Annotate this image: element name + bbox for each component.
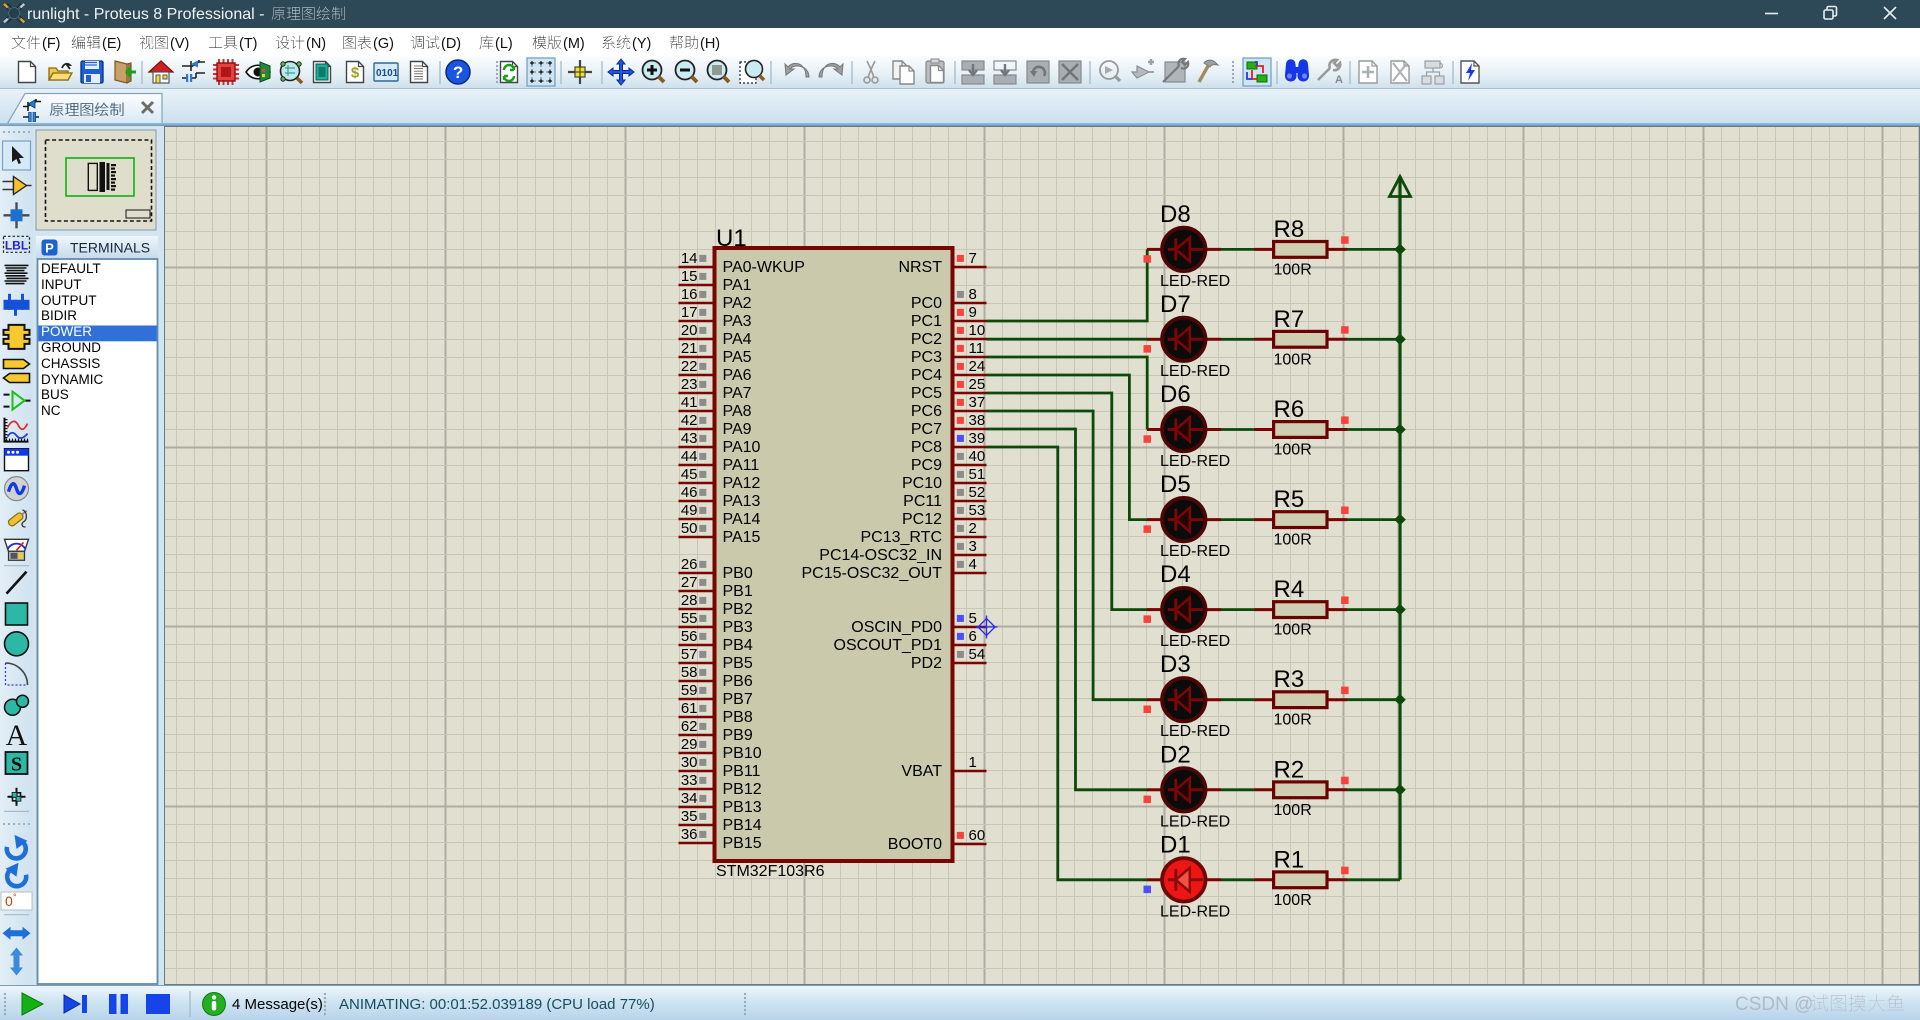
- svg-text:100R: 100R: [1274, 802, 1312, 819]
- wire PC7 to D2: [987, 429, 1148, 790]
- svg-text:51: 51: [969, 466, 986, 483]
- svg-text:0101: 0101: [376, 68, 399, 79]
- wire R7 to power rail: [1347, 338, 1400, 341]
- wire R1 to power rail: [1347, 878, 1400, 881]
- wire PC8 to D1: [987, 447, 1148, 880]
- svg-text:D1: D1: [1160, 831, 1191, 858]
- wire R8 to power rail: [1347, 248, 1400, 251]
- D8 reference label: [1160, 201, 1191, 228]
- svg-text:PB3: PB3: [723, 619, 753, 636]
- svg-text:(N): (N): [306, 36, 326, 52]
- svg-text:PB13: PB13: [723, 799, 762, 816]
- svg-text:(L): (L): [495, 36, 513, 52]
- svg-text:PC2: PC2: [911, 331, 942, 348]
- D1 value label LED-RED: [1160, 903, 1230, 920]
- svg-text:D7: D7: [1160, 291, 1191, 318]
- U1 left pin PB12 (pin 33): [679, 772, 762, 798]
- svg-text:42: 42: [681, 412, 698, 429]
- svg-text:A: A: [1335, 74, 1343, 86]
- resistor R2 100R: [1255, 782, 1348, 798]
- svg-text:PC10: PC10: [902, 475, 942, 492]
- R4 reference label: [1274, 576, 1305, 603]
- wire PC6 to D3: [987, 411, 1148, 700]
- R6 value label 100R: [1274, 442, 1312, 459]
- U1 left pin PB13 (pin 34): [679, 790, 762, 816]
- svg-text:D5: D5: [1160, 471, 1191, 498]
- U1 right pin PC1 (pin 9): [911, 304, 987, 330]
- svg-text:23: 23: [681, 376, 698, 393]
- svg-text:BOOT0: BOOT0: [888, 836, 942, 853]
- wire R3 to power rail: [1347, 698, 1400, 701]
- R1 reference label: [1274, 846, 1305, 873]
- svg-text:PB11: PB11: [723, 763, 761, 780]
- svg-text:44: 44: [681, 448, 698, 465]
- D6 value label LED-RED: [1160, 453, 1230, 470]
- svg-text:PB14: PB14: [723, 817, 762, 834]
- svg-text:34: 34: [681, 790, 698, 807]
- junction rail/R5: [1394, 514, 1406, 526]
- R8 right net state square: [1341, 236, 1349, 244]
- LED D5: [1147, 498, 1221, 541]
- svg-text:PA13: PA13: [723, 493, 761, 510]
- svg-text:58: 58: [681, 664, 698, 681]
- svg-text:0: 0: [5, 893, 13, 909]
- svg-text:37: 37: [969, 394, 986, 411]
- wire D7 anode to R7: [1221, 338, 1255, 341]
- U1 left pin PB4 (pin 56): [679, 628, 753, 654]
- svg-text:R1: R1: [1274, 846, 1305, 873]
- U1 left pin PB9 (pin 62): [679, 718, 753, 744]
- U1 left pin PB1 (pin 27): [679, 574, 753, 600]
- svg-text:PB9: PB9: [723, 727, 753, 744]
- D3 value label LED-RED: [1160, 723, 1230, 740]
- svg-text:PA1: PA1: [723, 277, 752, 294]
- U1 left pin PA0-WKUP (pin 14): [679, 250, 805, 276]
- svg-text:ANIMATING: 00:01:52.039189 (CP: ANIMATING: 00:01:52.039189 (CPU load 77%…: [339, 996, 655, 1013]
- svg-text:10: 10: [969, 322, 986, 339]
- svg-text:PB1: PB1: [723, 583, 753, 600]
- svg-text:PA12: PA12: [723, 475, 761, 492]
- U1 right pin PC10 (pin 51): [902, 466, 987, 492]
- svg-text:D6: D6: [1160, 381, 1191, 408]
- svg-text:PA11: PA11: [723, 457, 760, 474]
- U1 left pin PB8 (pin 61): [679, 700, 753, 726]
- svg-text:55: 55: [681, 610, 698, 627]
- junction rail/R8: [1394, 244, 1406, 256]
- svg-text:PC8: PC8: [911, 439, 942, 456]
- resistor R4 100R: [1255, 602, 1348, 618]
- wire R2 to power rail: [1347, 788, 1400, 791]
- svg-text:PC6: PC6: [911, 403, 942, 420]
- svg-text:runlight - Proteus 8 Professio: runlight - Proteus 8 Professional -: [27, 6, 264, 23]
- D7 cathode net state square: [1144, 345, 1152, 353]
- svg-text:46: 46: [681, 484, 698, 501]
- svg-text:PA9: PA9: [723, 421, 752, 438]
- svg-text:S: S: [11, 754, 22, 776]
- U1 left pin PA3 (pin 17): [679, 304, 752, 330]
- D4 reference label: [1160, 561, 1191, 588]
- svg-text:(T): (T): [239, 36, 258, 52]
- resistor R6 100R: [1255, 422, 1348, 438]
- svg-text:PA6: PA6: [723, 367, 752, 384]
- LED D4: [1147, 588, 1221, 631]
- resistor R1 100R: [1255, 872, 1348, 888]
- resistor R5 100R: [1255, 512, 1348, 528]
- svg-text:LED-RED: LED-RED: [1160, 363, 1230, 380]
- U1 left pin PA13 (pin 46): [679, 484, 761, 510]
- D1 reference label: [1160, 831, 1191, 858]
- svg-text:20: 20: [681, 322, 698, 339]
- svg-text:PC12: PC12: [902, 511, 942, 528]
- svg-text:PC13_RTC: PC13_RTC: [860, 529, 942, 546]
- R2 value label 100R: [1274, 802, 1312, 819]
- U1 left pin PA14 (pin 49): [679, 502, 761, 528]
- svg-text:28: 28: [681, 592, 698, 609]
- svg-text:LED-RED: LED-RED: [1160, 633, 1230, 650]
- svg-text:PA0-WKUP: PA0-WKUP: [723, 259, 805, 276]
- U1 right pin PC6 (pin 37): [911, 394, 987, 420]
- svg-text:(E): (E): [102, 36, 121, 52]
- U1 right pin NRST (pin 7): [898, 250, 986, 276]
- U1 right pin OSCOUT_PD1 (pin 6): [834, 628, 987, 654]
- svg-text:R4: R4: [1274, 576, 1305, 603]
- LED D3: [1147, 678, 1221, 721]
- svg-text:(Y): (Y): [632, 36, 651, 52]
- svg-text:33: 33: [681, 772, 698, 789]
- U1 right pin PC11 (pin 52): [903, 484, 986, 510]
- power terminal VCC: [1390, 177, 1411, 197]
- svg-text:(G): (G): [373, 36, 394, 52]
- svg-text:4 Message(s): 4 Message(s): [232, 996, 323, 1013]
- U1 left pin PA12 (pin 45): [679, 466, 761, 492]
- R2 reference label: [1274, 756, 1305, 783]
- svg-text:LED-RED: LED-RED: [1160, 723, 1230, 740]
- U1 right pin VBAT (pin 1): [901, 754, 986, 780]
- U1 reference label: [716, 225, 747, 252]
- U1 right pin PD2 (pin 54): [911, 646, 987, 672]
- svg-text:38: 38: [969, 412, 986, 429]
- svg-text:PC15-OSC32_OUT: PC15-OSC32_OUT: [802, 565, 943, 582]
- svg-text:15: 15: [681, 268, 698, 285]
- svg-text:100R: 100R: [1274, 622, 1312, 639]
- svg-text:CSDN @: CSDN @: [1735, 994, 1813, 1015]
- U1 left pin PB2 (pin 28): [679, 592, 753, 618]
- svg-text:OSCIN_PD0: OSCIN_PD0: [851, 619, 942, 636]
- resistor R8 100R: [1255, 242, 1348, 258]
- svg-text:R7: R7: [1274, 306, 1305, 333]
- svg-text:R8: R8: [1274, 216, 1305, 243]
- svg-text:LED-RED: LED-RED: [1160, 273, 1230, 290]
- U1 value label STM32F103R6: [716, 863, 825, 880]
- svg-text:D8: D8: [1160, 201, 1191, 228]
- svg-text:100R: 100R: [1274, 532, 1312, 549]
- svg-text:39: 39: [969, 430, 986, 447]
- D2 cathode net state square: [1144, 796, 1152, 804]
- R2 right net state square: [1341, 777, 1349, 785]
- svg-text:(V): (V): [170, 36, 189, 52]
- LED D2: [1147, 768, 1221, 811]
- U1 right pin PC5 (pin 25): [911, 376, 987, 402]
- svg-text:PA2: PA2: [723, 295, 752, 312]
- svg-text:56: 56: [681, 628, 698, 645]
- U1 left pin PA8 (pin 41): [679, 394, 752, 420]
- svg-text:100R: 100R: [1274, 892, 1312, 909]
- svg-text:41: 41: [681, 394, 698, 411]
- junction rail/R4: [1394, 604, 1406, 616]
- svg-text:PC4: PC4: [911, 367, 942, 384]
- U1 left pin PA6 (pin 22): [679, 358, 752, 384]
- U1 right pin PC15-OSC32_OUT (pin 4): [802, 556, 987, 582]
- wire PC4 to D5: [987, 375, 1148, 520]
- svg-text:25: 25: [969, 376, 986, 393]
- svg-text:P: P: [45, 241, 54, 256]
- svg-text:LED-RED: LED-RED: [1160, 543, 1230, 560]
- svg-text:62: 62: [681, 718, 698, 735]
- svg-text:7: 7: [969, 250, 977, 267]
- R7 reference label: [1274, 306, 1305, 333]
- svg-text:PB15: PB15: [723, 835, 762, 852]
- D1 cathode net state square: [1144, 886, 1152, 894]
- resistor R3 100R: [1255, 692, 1348, 708]
- wire D4 anode to R4: [1221, 608, 1255, 611]
- svg-text:TERMINALS: TERMINALS: [70, 240, 150, 256]
- svg-text:PC9: PC9: [911, 457, 942, 474]
- svg-text:22: 22: [681, 358, 698, 375]
- U1 left pin PA7 (pin 23): [679, 376, 752, 402]
- U1 left pin PA15 (pin 50): [679, 520, 761, 546]
- svg-text:PC14-OSC32_IN: PC14-OSC32_IN: [819, 547, 942, 564]
- D8 cathode net state square: [1144, 255, 1152, 263]
- editing cursor: [976, 616, 998, 639]
- svg-text:30: 30: [681, 754, 698, 771]
- svg-text:PB6: PB6: [723, 673, 753, 690]
- U1 right pin PC12 (pin 53): [902, 502, 987, 528]
- svg-text:LED-RED: LED-RED: [1160, 453, 1230, 470]
- R7 right net state square: [1341, 326, 1349, 334]
- svg-text:50: 50: [681, 520, 698, 537]
- svg-text:24: 24: [969, 358, 986, 375]
- U1 right pin PC0 (pin 8): [911, 286, 987, 312]
- U1 left pin PA2 (pin 16): [679, 286, 752, 312]
- U1 left pin PB15 (pin 36): [679, 826, 762, 852]
- svg-text:PC11: PC11: [903, 493, 942, 510]
- R8 value label 100R: [1274, 261, 1312, 278]
- svg-text:9: 9: [969, 304, 977, 321]
- svg-text:PB5: PB5: [723, 655, 753, 672]
- svg-text:59: 59: [681, 682, 698, 699]
- svg-text:11: 11: [969, 340, 985, 357]
- U1 left pin PA9 (pin 42): [679, 412, 752, 438]
- svg-text:PC7: PC7: [911, 421, 942, 438]
- wire R4 to power rail: [1347, 608, 1400, 611]
- resistor R7 100R: [1255, 331, 1348, 347]
- wire D6 anode to R6: [1221, 428, 1255, 431]
- junction rail/R2: [1394, 784, 1406, 796]
- svg-text:5: 5: [969, 610, 977, 627]
- wire PC3 to D6: [987, 357, 1148, 430]
- svg-text:PD2: PD2: [911, 655, 942, 672]
- wire R6 to power rail: [1347, 428, 1400, 431]
- R5 right net state square: [1341, 507, 1349, 515]
- svg-text:PA5: PA5: [723, 349, 752, 366]
- svg-text:35: 35: [681, 808, 698, 825]
- U1 left pin PB14 (pin 35): [679, 808, 762, 834]
- R4 right net state square: [1341, 597, 1349, 605]
- svg-text:40: 40: [969, 448, 986, 465]
- U1 right pin PC14-OSC32_IN (pin 3): [819, 538, 986, 564]
- svg-text:PC5: PC5: [911, 385, 942, 402]
- IC U1 STM32F103R6: [715, 248, 953, 861]
- svg-text:1: 1: [969, 754, 977, 771]
- svg-text:R2: R2: [1274, 756, 1305, 783]
- svg-text:PC1: PC1: [911, 313, 942, 330]
- svg-text:8: 8: [969, 286, 977, 303]
- svg-text:(M): (M): [563, 36, 585, 52]
- D5 reference label: [1160, 471, 1191, 498]
- svg-text:U1: U1: [716, 225, 747, 252]
- svg-text:61: 61: [681, 700, 698, 717]
- U1 right pin PC8 (pin 39): [911, 430, 987, 456]
- U1 left pin PA5 (pin 21): [679, 340, 752, 366]
- U1 right pin OSCIN_PD0 (pin 5): [851, 610, 986, 636]
- svg-text:D4: D4: [1160, 561, 1191, 588]
- svg-text:27: 27: [681, 574, 698, 591]
- U1 left pin PB7 (pin 59): [679, 682, 753, 708]
- U1 right pin PC3 (pin 11): [911, 340, 987, 366]
- svg-text:45: 45: [681, 466, 698, 483]
- svg-text:PA8: PA8: [723, 403, 752, 420]
- svg-text:PC3: PC3: [911, 349, 942, 366]
- junction rail/R6: [1394, 424, 1406, 436]
- svg-text:PA15: PA15: [723, 529, 761, 546]
- junction rail/R7: [1394, 334, 1406, 346]
- svg-text:36: 36: [681, 826, 698, 843]
- U1 left pin PA10 (pin 43): [679, 430, 761, 456]
- R7 value label 100R: [1274, 351, 1312, 368]
- svg-text:?: ?: [453, 63, 463, 82]
- D2 reference label: [1160, 741, 1191, 768]
- wire PC5 to D4: [987, 393, 1148, 610]
- svg-text:60: 60: [969, 827, 986, 844]
- svg-text:100R: 100R: [1274, 351, 1312, 368]
- svg-text:100R: 100R: [1274, 261, 1312, 278]
- svg-text:17: 17: [681, 304, 698, 321]
- svg-text:PA4: PA4: [723, 331, 752, 348]
- D8 value label LED-RED: [1160, 273, 1230, 290]
- U1 left pin PB10 (pin 29): [679, 736, 762, 762]
- U1 left pin PA11 (pin 44): [679, 448, 760, 474]
- svg-text:3: 3: [969, 538, 977, 555]
- LED D8: [1147, 228, 1221, 271]
- svg-text:PB0: PB0: [723, 565, 753, 582]
- D6 reference label: [1160, 381, 1191, 408]
- U1 right pin PC4 (pin 24): [911, 358, 987, 384]
- svg-text:LBL: LBL: [5, 238, 28, 252]
- U1 left pin PB6 (pin 58): [679, 664, 753, 690]
- svg-text:PB4: PB4: [723, 637, 753, 654]
- svg-text:VBAT: VBAT: [901, 763, 942, 780]
- svg-text:52: 52: [969, 484, 986, 501]
- svg-text:D3: D3: [1160, 651, 1191, 678]
- wire VCC power rail vertical: [1398, 176, 1401, 880]
- svg-text:57: 57: [681, 646, 698, 663]
- D6 cathode net state square: [1144, 435, 1152, 443]
- U1 left pin PB0 (pin 26): [679, 556, 753, 582]
- svg-text:R6: R6: [1274, 396, 1305, 423]
- D2 value label LED-RED: [1160, 813, 1230, 830]
- D5 cathode net state square: [1144, 525, 1152, 533]
- svg-text:PA10: PA10: [723, 439, 761, 456]
- wire PC2 to D7: [987, 338, 1148, 341]
- U1 right pin PC13_RTC (pin 2): [860, 520, 986, 546]
- D3 reference label: [1160, 651, 1191, 678]
- junction rail/R3: [1394, 694, 1406, 706]
- svg-text:$: $: [351, 65, 360, 82]
- svg-text:PA7: PA7: [723, 385, 752, 402]
- svg-text:100R: 100R: [1274, 712, 1312, 729]
- R1 right net state square: [1341, 867, 1349, 875]
- R6 reference label: [1274, 396, 1305, 423]
- D5 value label LED-RED: [1160, 543, 1230, 560]
- D4 value label LED-RED: [1160, 633, 1230, 650]
- R3 right net state square: [1341, 687, 1349, 695]
- U1 left pin PA1 (pin 15): [679, 268, 752, 294]
- svg-text:14: 14: [681, 250, 698, 267]
- wire D5 anode to R5: [1221, 518, 1255, 521]
- wire PC1 to D8: [987, 249, 1148, 321]
- svg-text:PB2: PB2: [723, 601, 753, 618]
- svg-text:6: 6: [969, 628, 977, 645]
- R8 reference label: [1274, 216, 1305, 243]
- R3 reference label: [1274, 666, 1305, 693]
- svg-text:NRST: NRST: [898, 259, 942, 276]
- LED D7: [1147, 318, 1221, 361]
- svg-text:100R: 100R: [1274, 442, 1312, 459]
- R5 value label 100R: [1274, 532, 1312, 549]
- wire D2 anode to R2: [1221, 788, 1255, 791]
- svg-text:PC0: PC0: [911, 295, 942, 312]
- D7 reference label: [1160, 291, 1191, 318]
- LED D6: [1147, 408, 1221, 451]
- svg-text:26: 26: [681, 556, 698, 573]
- wire D8 anode to R8: [1221, 248, 1255, 251]
- svg-text:R3: R3: [1274, 666, 1305, 693]
- wire D1 anode to R1: [1221, 878, 1255, 881]
- D4 cathode net state square: [1144, 615, 1152, 623]
- svg-text:49: 49: [681, 502, 698, 519]
- svg-text:°: °: [13, 892, 17, 902]
- svg-text:PA3: PA3: [723, 313, 752, 330]
- U1 left pin PB11 (pin 30): [679, 754, 761, 780]
- svg-text:STM32F103R6: STM32F103R6: [716, 863, 825, 880]
- svg-text:(H): (H): [700, 36, 720, 52]
- D3 cathode net state square: [1144, 706, 1152, 714]
- svg-text:PB10: PB10: [723, 745, 762, 762]
- U1 right pin BOOT0 (pin 60): [888, 827, 987, 853]
- R3 value label 100R: [1274, 712, 1312, 729]
- svg-text:(F): (F): [42, 36, 61, 52]
- U1 left pin PB5 (pin 57): [679, 646, 753, 672]
- svg-text:2: 2: [969, 520, 977, 537]
- LED D1: [1147, 858, 1221, 901]
- U1 right pin PC9 (pin 40): [911, 448, 987, 474]
- svg-text:OSCOUT_PD1: OSCOUT_PD1: [834, 637, 943, 654]
- svg-text:LED-RED: LED-RED: [1160, 903, 1230, 920]
- svg-text:A: A: [6, 719, 28, 752]
- U1 right pin PC7 (pin 38): [911, 412, 987, 438]
- R1 value label 100R: [1274, 892, 1312, 909]
- U1 left pin PA4 (pin 20): [679, 322, 752, 348]
